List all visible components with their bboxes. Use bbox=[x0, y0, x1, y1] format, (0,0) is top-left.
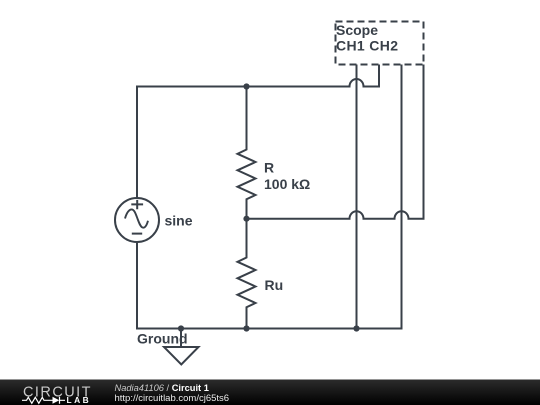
svg-text:http://circuitlab.com/cj65ts6: http://circuitlab.com/cj65ts6 bbox=[115, 393, 230, 404]
svg-text:Nadia41106 / Circuit 1: Nadia41106 / Circuit 1 bbox=[115, 383, 209, 393]
voltage source minus sign bbox=[132, 233, 142, 235]
svg-text:100 kΩ: 100 kΩ bbox=[264, 176, 310, 192]
wire node B to scope CH2 terminal (hops over T1 and T3) bbox=[247, 65, 424, 219]
node B junction dot bbox=[243, 216, 249, 222]
svg-text:Scope: Scope bbox=[336, 22, 378, 38]
voltage source V1 circle bbox=[115, 198, 159, 242]
ground junction dot bbox=[178, 325, 184, 331]
resistor R2 (Ru) bbox=[238, 219, 256, 329]
wire scope CH1 ground terminal T1 bbox=[356, 65, 358, 329]
ground symbol triangle bbox=[164, 347, 199, 365]
node D junction dot (T1 to bottom rail) bbox=[353, 325, 359, 331]
node A junction dot bbox=[243, 83, 249, 89]
svg-text:CH1 CH2: CH1 CH2 bbox=[336, 38, 398, 54]
wire node A to scope CH1 terminal (hop over T1) bbox=[247, 65, 380, 87]
resistor R1 (R) bbox=[238, 87, 256, 219]
svg-text:sine: sine bbox=[165, 213, 193, 229]
voltage source plus sign bbox=[131, 200, 143, 209]
footer logo schematic glyph (resistor + diode) bbox=[22, 397, 65, 404]
ground stub wire bbox=[180, 329, 182, 348]
svg-text:R: R bbox=[264, 159, 274, 175]
footer logo diode triangle bbox=[53, 397, 60, 404]
wire left rail: source top to node A bbox=[137, 87, 247, 198]
node C junction dot (Ru bottom) bbox=[243, 325, 249, 331]
svg-text:Ru: Ru bbox=[265, 277, 284, 293]
svg-text:Ground: Ground bbox=[137, 330, 188, 346]
scope box dashed bbox=[336, 22, 424, 65]
wire bottom rail: source bottom to scope CH2 ground terminal bbox=[137, 65, 402, 329]
svg-text:LAB: LAB bbox=[67, 395, 92, 405]
footer bar bbox=[0, 380, 540, 405]
voltage source sine waveform bbox=[125, 209, 148, 227]
